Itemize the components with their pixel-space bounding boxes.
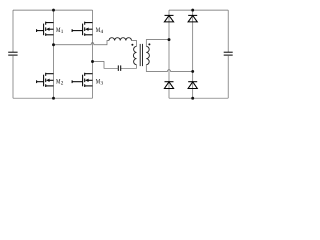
mosfet M4 — [72, 22, 92, 36]
wire output cap leg lower — [227, 55, 229, 98]
wire secondary top to bridge — [146, 40, 169, 47]
node dot bottom rail secondary / right diode leg — [191, 97, 194, 100]
wire top rail primary — [13, 9, 93, 11]
wire secondary bottom to bridge (hop over left diode leg) — [146, 65, 192, 72]
wire output cap leg upper — [227, 10, 229, 52]
transformer secondary winding — [146, 46, 149, 64]
mosfet M2 — [37, 73, 54, 87]
node dot secondary top / left diode leg — [168, 38, 171, 41]
wire left leg — [53, 10, 55, 98]
wire left rail lower — [12, 55, 14, 98]
wire blocking cap to right leg midpoint — [93, 62, 119, 69]
polarity dot secondary — [148, 43, 150, 45]
wire diode bridge right leg — [192, 10, 194, 98]
diode D4 (bottom right) — [188, 82, 197, 89]
svg-text:3: 3 — [101, 80, 104, 86]
wire bottom rail secondary — [169, 97, 228, 99]
wire primary bottom to blocking cap — [121, 65, 137, 69]
polarity dot primary — [131, 44, 133, 46]
node dot top rail / M1 drain — [52, 9, 55, 12]
wire left midpoint to inductor (with hop over right leg) — [54, 41, 110, 45]
diode D3 (top right) — [188, 15, 197, 22]
mosfet M1 — [37, 22, 54, 36]
svg-text:4: 4 — [101, 29, 104, 35]
svg-text:2: 2 — [61, 80, 64, 86]
wire left rail upper — [12, 10, 14, 52]
inductor Lr — [109, 38, 132, 41]
wire right leg — [92, 10, 94, 98]
diode D2 (bottom left) — [164, 82, 173, 89]
diode D1 (top left) — [164, 15, 173, 22]
wire inductor to transformer primary top — [132, 41, 137, 47]
capacitor Cb (blocking) — [118, 65, 120, 71]
capacitor Cin — [8, 52, 17, 55]
wire diode bridge left leg — [168, 10, 170, 98]
node dot bottom rail / M2 source — [52, 97, 55, 100]
node dot top rail secondary / right diode leg — [191, 9, 194, 12]
transformer core — [140, 44, 142, 66]
node dot right leg midpoint — [91, 60, 94, 63]
capacitor Cout — [224, 52, 233, 55]
wire bottom rail primary — [13, 97, 93, 99]
node dot left leg midpoint — [52, 43, 55, 46]
wire top rail secondary — [169, 9, 228, 11]
node dot secondary bottom / right diode leg — [191, 70, 194, 73]
transformer primary winding — [133, 46, 136, 64]
mosfet M3 — [72, 73, 92, 87]
svg-text:1: 1 — [61, 29, 64, 35]
